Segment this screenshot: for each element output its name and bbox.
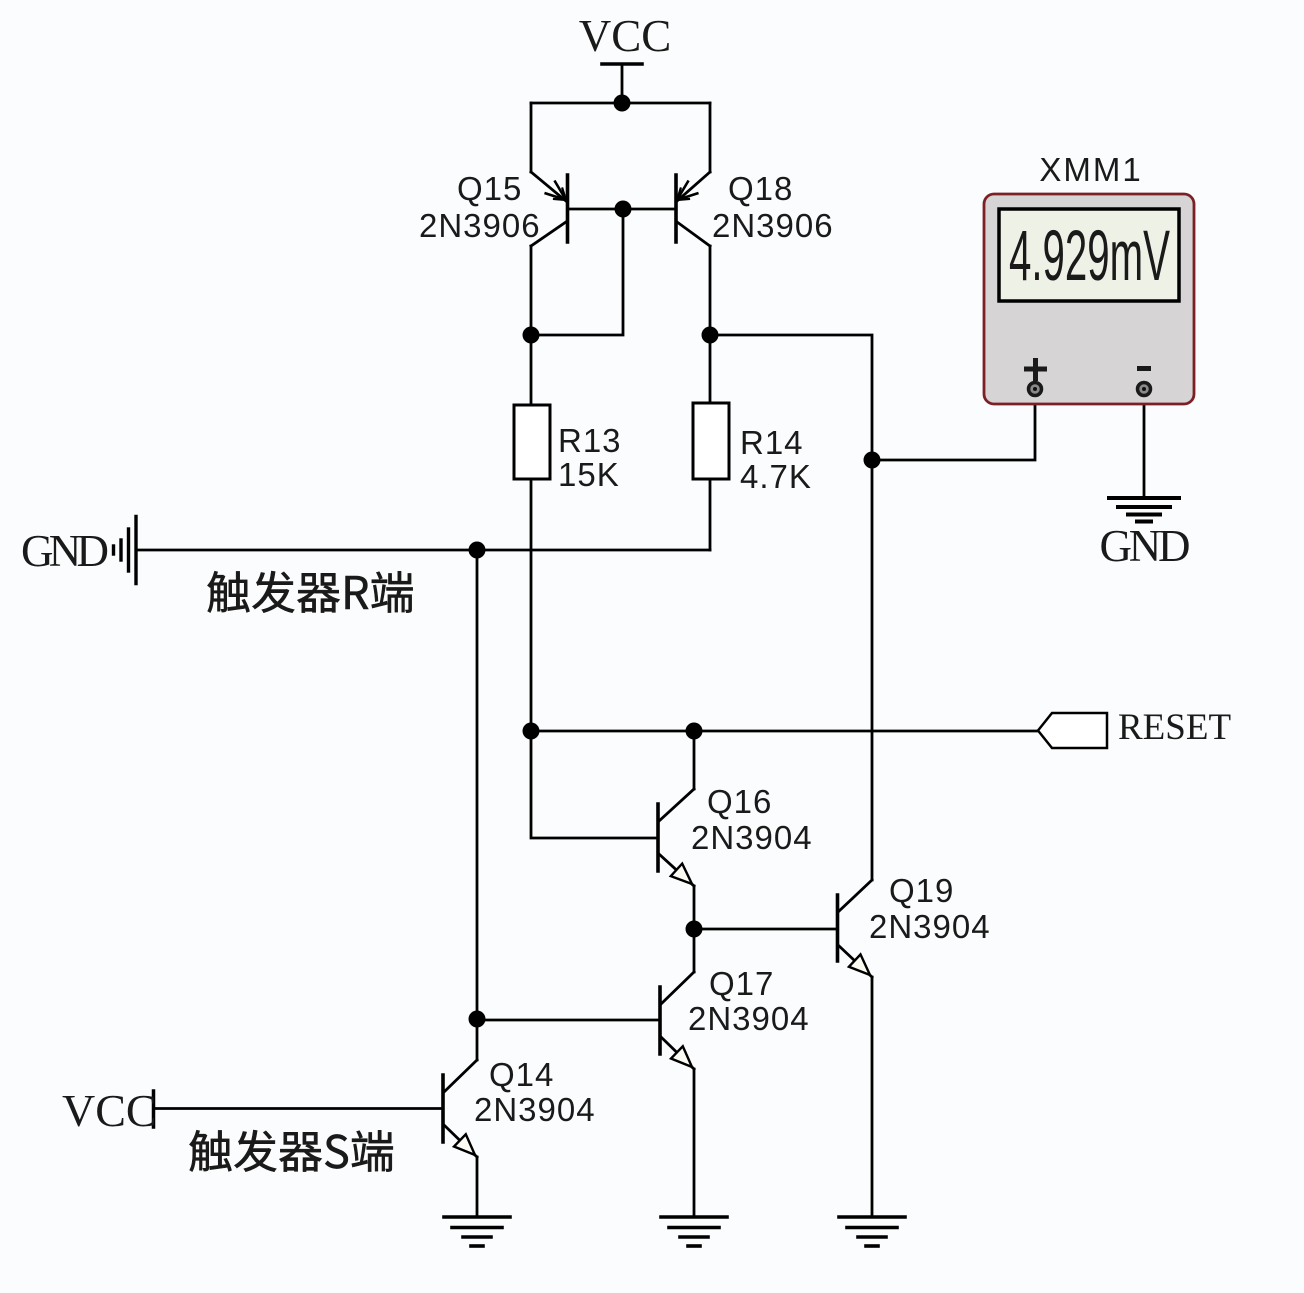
junction Q14 collector / Q17 base xyxy=(469,1011,486,1028)
svg-text:Q16: Q16 xyxy=(707,783,772,820)
power terminal VCC left xyxy=(152,1091,156,1127)
svg-text:4.7K: 4.7K xyxy=(740,458,812,495)
svg-text:2N3904: 2N3904 xyxy=(691,819,813,856)
wire XMM1 minus lead xyxy=(1143,396,1146,497)
wire Q18 emitter lead xyxy=(709,103,712,172)
wire base tie-down xyxy=(531,209,623,335)
svg-text:R13: R13 xyxy=(558,422,622,459)
svg-text:R14: R14 xyxy=(740,424,804,461)
svg-text:GND: GND xyxy=(1100,521,1191,571)
XMM1 minus terminal xyxy=(1138,383,1151,396)
svg-text:2N3906: 2N3906 xyxy=(419,207,541,244)
XMM1 display xyxy=(999,209,1179,301)
svg-text:XMM1: XMM1 xyxy=(1039,151,1142,188)
transistor Q18 2N3906 xyxy=(623,172,710,335)
svg-text:Q17: Q17 xyxy=(709,965,774,1002)
wire Q16-Q19 base link xyxy=(694,928,836,931)
transistor Q14 2N3904 xyxy=(443,1019,477,1216)
XMM1 plus terminal xyxy=(1024,358,1151,381)
transistor Q19 2N3904 xyxy=(838,880,873,1216)
junction R13 bottom / RESET net xyxy=(523,723,540,740)
svg-text:2N3904: 2N3904 xyxy=(688,1000,810,1037)
label trigger R terminal 触发器R端 xyxy=(207,571,412,613)
svg-text:RESET: RESET xyxy=(1118,707,1231,748)
junction trigger R net xyxy=(469,542,486,559)
svg-text:Q19: Q19 xyxy=(889,872,954,909)
transistor Q17 2N3904 xyxy=(660,929,694,1216)
svg-text:4.929mV: 4.929mV xyxy=(1009,217,1170,296)
transistor Q15 2N3906 xyxy=(531,172,623,335)
svg-text:2N3904: 2N3904 xyxy=(474,1091,596,1128)
resistor R14 body xyxy=(693,403,729,479)
ground GND left symbol xyxy=(114,517,137,584)
svg-text:2N3904: 2N3904 xyxy=(869,908,991,945)
wire collector rail right xyxy=(710,335,872,880)
svg-text:15K: 15K xyxy=(558,456,620,493)
transistor Q16 2N3904 xyxy=(658,731,694,929)
label trigger S terminal 触发器S端 xyxy=(189,1130,392,1172)
svg-text:Q18: Q18 xyxy=(728,170,793,207)
ground below Q14 xyxy=(444,1217,510,1246)
junction Q15 collector / R13 top xyxy=(523,327,540,344)
junction VCC rail xyxy=(614,95,631,112)
svg-text:2N3906: 2N3906 xyxy=(712,207,834,244)
wire Q17 base lead xyxy=(477,1019,658,1022)
wire left vertical xyxy=(476,550,479,1019)
wire trigger S net xyxy=(154,1107,442,1110)
wire RESET net xyxy=(531,730,1038,733)
wire trigger R net xyxy=(137,549,477,552)
junction Q16 collector / RESET net xyxy=(686,723,703,740)
connector RESET xyxy=(1038,713,1107,748)
svg-text:Q15: Q15 xyxy=(457,170,522,207)
ground below Q17 xyxy=(661,1217,727,1246)
ground GND right symbol xyxy=(1109,498,1179,522)
junction XMM1 plus / Q19 collector xyxy=(864,452,881,469)
svg-text:VCC: VCC xyxy=(62,1085,157,1136)
svg-text:VCC: VCC xyxy=(579,11,672,61)
svg-text:GND: GND xyxy=(21,526,109,576)
resistor R13 body xyxy=(514,405,550,479)
ground below Q19 xyxy=(839,1217,905,1246)
svg-text:Q14: Q14 xyxy=(489,1056,554,1093)
power symbol VCC top xyxy=(602,62,642,66)
wire Q15 emitter lead xyxy=(530,103,533,172)
multimeter XMM1 body xyxy=(984,194,1194,404)
wire Q16 base lead xyxy=(531,731,656,838)
resistor R13 leads xyxy=(530,335,533,405)
junction Q16 emitter / Q19 base / Q17 collector xyxy=(686,921,703,938)
wire XMM1 plus lead xyxy=(872,396,1035,460)
resistor R14 leads xyxy=(709,335,712,403)
junction Q18 collector / R14 top xyxy=(702,327,719,344)
junction Q15-Q18 bases xyxy=(615,201,632,218)
wire top rail xyxy=(531,102,710,105)
